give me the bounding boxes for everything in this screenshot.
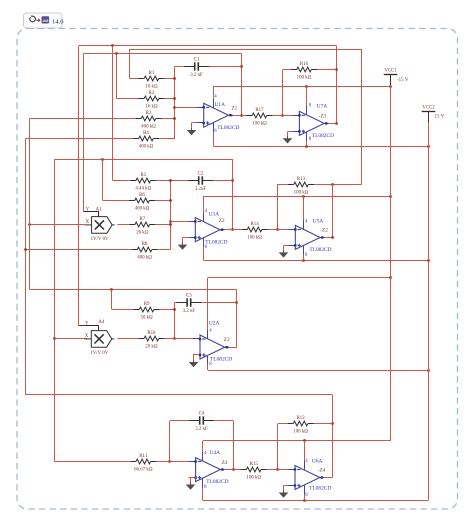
svg-text:R17: R17 — [255, 108, 264, 113]
junction rail4+ at U6A bottom pin — [303, 499, 306, 502]
capacitor C1 value 3.2 nF — [184, 57, 209, 78]
svg-text:4: 4 — [305, 219, 308, 224]
wire U1A non-inverting input to ground — [192, 122, 197, 124]
wire net -Z1 top horizontal (line 1) — [79, 45, 337, 47]
wire -Z2 vertical to U5A output — [332, 184, 334, 238]
svg-text:R7: R7 — [139, 217, 145, 222]
wire VCC1 -15V rail row 3 — [208, 277, 391, 279]
wire U7A non-inverting input to ground — [288, 131, 293, 133]
svg-text:50 kΩ: 50 kΩ — [140, 315, 153, 320]
svg-text:C4: C4 — [199, 411, 205, 416]
op-amp U3A TL082CD — [79, 69, 445, 501]
junction U5A output — [331, 236, 334, 239]
junction bus2 at R5/C2 corner — [169, 179, 172, 182]
junction bus at R2 — [173, 97, 176, 100]
wire R5 right lead to bus — [156, 180, 170, 182]
svg-text:R8: R8 — [142, 242, 148, 247]
svg-text:R1: R1 — [149, 71, 155, 76]
svg-text:R10: R10 — [147, 331, 156, 336]
svg-text:4: 4 — [209, 328, 212, 333]
svg-text:Z2: Z2 — [219, 218, 225, 224]
wire net -Z4 vertical left — [25, 139, 27, 395]
junction C4 at inverting input wire — [168, 460, 171, 463]
wire R1 left lead — [129, 78, 138, 80]
svg-text:A4: A4 — [98, 320, 105, 325]
svg-text:R11: R11 — [139, 454, 148, 459]
wire C4 left vertical to U4A inverting input — [169, 421, 171, 462]
junction rail2 at U5A top pin — [302, 195, 305, 198]
wire VCC2 +15V rail row 3 — [208, 370, 428, 372]
junction R13 at R14 right — [276, 228, 279, 231]
wire U4A non-inverting input to ground — [189, 477, 191, 479]
svg-text:TL082CD: TL082CD — [309, 486, 331, 492]
wire A4 Y input step — [79, 325, 99, 327]
svg-text:Z1: Z1 — [232, 106, 238, 112]
svg-text:Z3: Z3 — [224, 337, 230, 343]
svg-text:-15 V: -15 V — [397, 78, 409, 83]
resistor R3 value 400 k&#937; — [136, 111, 162, 129]
multiplier A1 (1V/V 0V) — [85, 217, 115, 234]
svg-text:U2A: U2A — [209, 320, 220, 326]
wire net Z1 right vertical down to U1A output — [241, 53, 243, 115]
wire U3A non-inverting input to ground — [183, 237, 189, 239]
junction -Z1 to R5 feed — [111, 44, 114, 47]
svg-text:4: 4 — [204, 451, 207, 456]
wire R12 row — [278, 423, 288, 425]
svg-text:1V/V 0V: 1V/V 0V — [91, 237, 109, 242]
wire VCC2 distribution vertical — [428, 146, 430, 500]
svg-text:VCC1: VCC1 — [384, 69, 397, 74]
svg-text:8: 8 — [305, 253, 308, 258]
wire net -Z1 right vertical down to U7A output — [336, 46, 338, 124]
wire net Z2 long horizontal — [55, 159, 233, 161]
wire R16 right lead — [317, 69, 337, 71]
wire U2A output to Z3 vertical — [225, 347, 237, 349]
wire R13 left vertical down to U5A inverting input — [277, 184, 279, 230]
wire net -Z4 horizontal link — [26, 394, 333, 396]
svg-text:TL082CD: TL082CD — [309, 247, 331, 253]
junction Z1 to R2 feed — [115, 52, 118, 55]
wire VCC2 +15V rail row 2 — [204, 260, 429, 262]
svg-text:3.2nF: 3.2nF — [195, 187, 207, 192]
ground ground at U2A — [189, 355, 199, 368]
wire net Z1 top horizontal (line 3) — [83, 53, 241, 55]
wire net Z3 vertical right down to U2A output — [236, 290, 238, 347]
resistor R14 value 100 k&#937; — [242, 222, 268, 240]
svg-text:1V/V 0V: 1V/V 0V — [90, 351, 108, 356]
svg-text:X: X — [86, 220, 90, 225]
junction Z3 at R9 feed — [110, 288, 113, 291]
junction rail at VCC1 stem — [389, 85, 392, 88]
svg-text:400 kΩ: 400 kΩ — [137, 255, 152, 260]
wire net Z2 left vertical down to R11 — [54, 159, 56, 461]
wire Z1 feed down to R2 — [116, 53, 118, 98]
svg-text:C1: C1 — [194, 57, 200, 62]
wire R3 right lead to input bus — [162, 118, 175, 120]
junction rail2+ at U5A bottom pin — [302, 259, 305, 262]
wire C4 row — [170, 420, 189, 422]
power symbol VCC2 — [422, 112, 436, 147]
junction bus2 at inverting wire — [169, 220, 172, 223]
junction Z3 vertical at A1 X input — [28, 223, 31, 226]
junction -Z1 at U7A output — [335, 122, 338, 125]
wire R10 row from multiplier A4 output — [117, 338, 138, 340]
wire VCC1 -15V rail row 4 — [203, 440, 391, 442]
wire Z2 to R11 horizontal — [55, 461, 131, 463]
junction Z1 at U1A output — [240, 114, 243, 117]
junction rail at U7A top supply pin — [305, 85, 308, 88]
svg-text:R14: R14 — [251, 222, 260, 227]
svg-text:R15: R15 — [250, 462, 259, 467]
svg-text:3.2 nF: 3.2 nF — [190, 73, 203, 78]
svg-text:R3: R3 — [146, 111, 152, 116]
op-amp U7A TL082CD — [79, 69, 445, 501]
wire net Z3 vertical left — [29, 119, 31, 290]
wire U5A non-inverting input to ground — [284, 245, 288, 247]
svg-text:U3A: U3A — [209, 211, 220, 217]
svg-text:-Z4: -Z4 — [318, 468, 326, 474]
svg-text:-Z2: -Z2 — [320, 228, 328, 234]
wire net -Z2 right vertical down to R13 row — [361, 50, 363, 184]
junction bus3 at R9 — [173, 308, 176, 311]
svg-text:U4A: U4A — [210, 450, 221, 456]
junction bus at R3 — [173, 117, 176, 120]
wire R17 right lead to U7A inverting input — [271, 115, 292, 117]
junction Z2 at C2 right terminal — [231, 179, 234, 182]
svg-text:A1: A1 — [96, 208, 103, 213]
junction Z1 at C1 right terminal — [240, 65, 243, 68]
ground ground at U4A — [186, 478, 196, 490]
svg-text:3.2 nF: 3.2 nF — [183, 309, 196, 314]
wire net Z3 horizontal link — [30, 289, 237, 291]
junction Z2 to R6 feed — [101, 158, 104, 161]
svg-text:16 kΩ: 16 kΩ — [145, 104, 158, 109]
wire Z2 feed down to R6 — [102, 159, 104, 200]
resistor R1 value 16 k&#937; — [139, 71, 165, 89]
wire C4 right vertical down to U4A output — [233, 421, 235, 470]
wire U5A output to -Z2 vertical — [320, 237, 333, 239]
svg-text:14.0: 14.0 — [52, 18, 64, 25]
resistor R4 value 400 k&#937; — [133, 131, 159, 149]
svg-text:C2: C2 — [198, 171, 204, 176]
svg-text:R5: R5 — [140, 173, 146, 178]
wire R16 left vertical down to U7A inverting input — [282, 70, 284, 116]
wire U3A inverting input — [170, 221, 188, 223]
wire -Z2 horizontal into R13 right terminal — [333, 184, 362, 186]
resistor R12 value 100 k&#937; — [288, 416, 314, 434]
svg-text:VCC2: VCC2 — [422, 106, 435, 111]
op-amp U1A TL082CD — [79, 69, 445, 501]
wire net -Z1 left vertical down to multiplier A4 Y input — [78, 46, 80, 326]
wire R2 right lead to input bus — [165, 98, 175, 100]
svg-text:8: 8 — [305, 493, 308, 498]
svg-text:100 kΩ: 100 kΩ — [246, 475, 261, 480]
op-amp U5A TL082CD — [79, 69, 445, 501]
svg-text:100 kΩ: 100 kΩ — [294, 190, 309, 195]
svg-text:TL082CD: TL082CD — [210, 357, 232, 363]
resistor R13 value 100 k&#937; — [288, 177, 314, 195]
wire net -Z4 vertical right — [332, 395, 334, 478]
svg-text:Y: Y — [86, 208, 90, 213]
wire R4 left horizontal from node -Z4 vertical — [26, 138, 134, 140]
junction rail at U7A bottom supply pin — [305, 145, 308, 148]
junction rail2 at VCC1 vertical — [389, 195, 392, 198]
junction R16 at U7A inverting input — [281, 114, 284, 117]
wire net A1 X input from node Z3 vertical — [30, 224, 85, 226]
wire R11 right lead / U4A inverting input — [156, 461, 193, 463]
wire U6A non-inverting input to ground — [283, 485, 288, 487]
ground ground at U6A — [279, 486, 289, 498]
svg-text:U6A: U6A — [312, 458, 323, 464]
wire Z3 feed down to R9 — [111, 290, 113, 310]
junction -Z1 at R16 right terminal — [335, 68, 338, 71]
wire C3 row — [175, 302, 176, 304]
svg-text:R4: R4 — [143, 131, 149, 136]
svg-text:R12: R12 — [297, 416, 306, 421]
junction rail4 at U6A top pin — [303, 439, 306, 442]
junction Z3 at C3 right terminal — [235, 301, 238, 304]
wire C2 row — [170, 180, 188, 182]
wire R15 right lead to U6A inverting input — [267, 469, 288, 471]
junction R12 at R15 right — [276, 468, 279, 471]
junction bus2 at R6 — [169, 199, 172, 202]
wire VCC1 -15V rail row 1 — [213, 86, 391, 88]
svg-text:TL082CD: TL082CD — [217, 125, 239, 131]
wire R1 right lead to input bus — [165, 78, 175, 80]
wire VCC2 +15V rail row 4 — [203, 500, 428, 502]
svg-text:C3: C3 — [186, 293, 192, 298]
wire VCC1 -15V rail row 2 — [204, 196, 391, 198]
svg-text:100 kΩ: 100 kΩ — [293, 429, 308, 434]
wire R2 left lead — [116, 98, 138, 100]
ground ground at U3A — [178, 238, 188, 250]
junction rail2+ at VCC2 vertical — [427, 259, 430, 262]
wire R14 right lead to U5A inverting input — [268, 229, 289, 231]
wire U1A inverting input — [175, 107, 197, 109]
svg-text:R16: R16 — [300, 62, 309, 67]
ground ground at U1A — [187, 123, 197, 136]
wire C1 feedback row — [175, 66, 184, 68]
wire U2A summing bus vertical — [174, 302, 176, 339]
wire R9 right lead to bus — [160, 309, 175, 311]
capacitor C3 value 3.2 nF — [176, 293, 201, 314]
wire VCC2 +15V rail row 1 — [213, 146, 428, 148]
wire Z1 left vertical down to multiplier A1 Y input — [83, 53, 85, 211]
svg-text:U7A: U7A — [317, 103, 328, 109]
svg-text:R9: R9 — [144, 302, 150, 307]
wire R13 row — [278, 184, 288, 186]
op-amp U6A TL082CD — [79, 69, 445, 501]
wire net Z2 right vertical down to U3A output — [232, 159, 234, 230]
resistor R7 value 20 k&#937; — [129, 217, 155, 235]
op-amp U2A TL082CD — [79, 69, 445, 501]
junction Z2 to multiplier A4 X input — [53, 337, 56, 340]
svg-text:4: 4 — [205, 209, 208, 214]
svg-text:Y: Y — [85, 322, 89, 327]
junction bus2 at R7 — [169, 223, 172, 226]
resistor R10 value 20 k&#937; — [138, 331, 164, 349]
power symbol VCC1 — [384, 75, 398, 87]
resistor R5 value 4.44 k&#937; — [130, 173, 156, 191]
wire A1 Y input step — [83, 211, 98, 213]
wire R6 right lead to bus — [155, 200, 170, 202]
svg-text:TL082CD: TL082CD — [312, 133, 334, 139]
svg-text:U5A: U5A — [313, 218, 324, 224]
junction rail3 at VCC1 vertical — [389, 276, 392, 279]
svg-text:100 kΩ: 100 kΩ — [297, 75, 312, 80]
wire R16 left lead — [283, 69, 292, 71]
svg-text:8: 8 — [309, 104, 312, 109]
wire U3A output to R14 — [220, 229, 242, 231]
resistor R8 value 400 k&#937; — [132, 242, 158, 260]
resistor R9 value 50 k&#937; — [134, 302, 160, 320]
wire R8 left horizontal from node -Z4 vertical — [26, 249, 132, 251]
resistor R11 value 66.67 k&#937; — [130, 454, 156, 472]
svg-text:R6: R6 — [139, 193, 145, 198]
wire -Z1 feed down to R5 — [112, 46, 114, 180]
junction -Z4 at R12 right — [331, 422, 334, 425]
wire U2A non-inverting input to ground — [192, 354, 195, 356]
junction rail at VCC2 stem — [427, 145, 430, 148]
multiplier A4 (1V/V 0V) — [85, 331, 115, 348]
wire U7A output — [324, 123, 336, 125]
svg-text:Z4: Z4 — [222, 460, 228, 466]
svg-text:-Z1: -Z1 — [319, 114, 327, 120]
junction bus at R1 — [173, 77, 176, 80]
svg-text:R2: R2 — [149, 91, 155, 96]
junction C4 at U4A output — [232, 468, 235, 471]
wire net -Z2 top horizontal (line 2) — [129, 49, 362, 51]
svg-text:4: 4 — [214, 95, 217, 100]
svg-text:4.44 kΩ: 4.44 kΩ — [135, 186, 151, 191]
svg-text:8: 8 — [204, 485, 207, 490]
wire U1A output to R17 — [229, 115, 249, 117]
toolbar badge box with version 14.0 — [24, 13, 65, 28]
op-amp U4A TL082CD — [79, 69, 445, 501]
junction bus at U1A inverting input wire — [173, 106, 176, 109]
junction bus3 at inverting wire — [173, 337, 176, 340]
ground ground at U5A — [279, 246, 289, 258]
resistor R16 value 100 k&#937; — [291, 62, 317, 80]
svg-text:400 kΩ: 400 kΩ — [139, 144, 154, 149]
wire VCC1 distribution vertical — [390, 86, 392, 441]
junction -Z4 at R8 feed — [24, 248, 27, 251]
svg-text:TL082CD: TL082CD — [205, 239, 227, 245]
svg-text:20 kΩ: 20 kΩ — [145, 344, 158, 349]
capacitor C4 value 3.2 nF — [189, 411, 214, 432]
wire U1A summing input bus vertical — [174, 67, 176, 140]
wire A4 X input horizontal — [55, 338, 87, 340]
wire R10 right lead / U2A inverting input — [164, 338, 193, 340]
wire U6A output to -Z4 vertical — [320, 477, 333, 479]
wire U4A output to R15 — [220, 469, 240, 471]
ground ground at U7A — [283, 132, 293, 144]
svg-text:TL082CD: TL082CD — [206, 479, 228, 485]
wire R8 right lead to bus — [158, 249, 171, 251]
wire -Z2 down to R1 left terminal — [129, 50, 131, 78]
junction Z2 at U3A output — [231, 228, 234, 231]
wire R4 right lead to input bus — [159, 138, 175, 140]
svg-text:3.2 nF: 3.2 nF — [195, 427, 208, 432]
svg-text:U1A: U1A — [215, 102, 226, 108]
resistor R2 value 16 k&#937; — [139, 91, 165, 109]
svg-text:X: X — [85, 334, 89, 339]
wire R12 left vertical down to R15 right — [277, 424, 279, 470]
svg-text:20 kΩ: 20 kΩ — [136, 230, 149, 235]
svg-text:4: 4 — [305, 459, 308, 464]
capacitor C2 value 3.2nF — [188, 171, 213, 192]
wire R7 right lead to bus — [155, 224, 170, 226]
svg-text:8: 8 — [205, 245, 208, 250]
junction R13 right at -Z2 vertical — [331, 183, 334, 186]
wire R7 row from multiplier A1 output — [117, 224, 129, 226]
resistor R17 value 100 k&#937; — [247, 108, 273, 126]
wire R3 left horizontal from node Z3 vertical — [30, 118, 136, 120]
svg-text:100 kΩ: 100 kΩ — [252, 121, 267, 126]
svg-text:R13: R13 — [297, 177, 306, 182]
svg-text:8: 8 — [209, 362, 212, 367]
junction rail3+ at VCC2 vertical — [427, 369, 430, 372]
svg-text:100 kΩ: 100 kΩ — [247, 235, 262, 240]
svg-text:400 kΩ: 400 kΩ — [135, 206, 150, 211]
wire U3A summing bus vertical — [170, 180, 172, 249]
svg-text:66.67 kΩ: 66.67 kΩ — [134, 467, 153, 472]
svg-text:400 kΩ: 400 kΩ — [141, 124, 156, 129]
svg-text:15 V: 15 V — [435, 115, 445, 120]
svg-text:16 kΩ: 16 kΩ — [145, 84, 158, 89]
resistor R6 value 400 k&#937; — [129, 193, 155, 211]
resistor R15 value 100 k&#937; — [241, 462, 267, 480]
